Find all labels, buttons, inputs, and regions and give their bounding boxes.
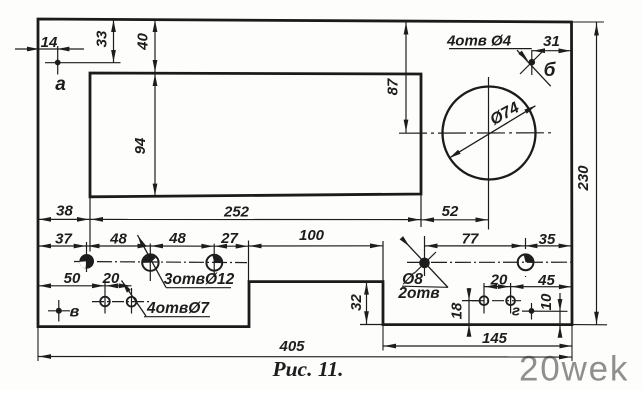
extension rect right edge xyxy=(420,194,422,227)
watermark 20wek xyxy=(519,350,629,389)
dim 252 xyxy=(90,204,421,223)
svg-text:20wek: 20wek xyxy=(519,350,629,389)
dim 31 xyxy=(532,33,572,53)
hole v xyxy=(48,300,70,322)
svg-text:40: 40 xyxy=(135,33,152,51)
svg-text:Рис. 11.: Рис. 11. xyxy=(271,357,343,381)
dim 405 xyxy=(38,327,572,361)
centerline small holes xyxy=(472,300,521,302)
extension notch right xyxy=(382,241,384,282)
svg-text:52: 52 xyxy=(442,203,459,220)
extension notch left xyxy=(248,241,250,282)
svg-text:а: а xyxy=(55,74,66,95)
dim 48 second xyxy=(150,230,214,248)
label b xyxy=(544,60,557,81)
dim 38 xyxy=(38,203,90,222)
svg-text:145: 145 xyxy=(482,330,508,347)
svg-text:10: 10 xyxy=(538,293,555,310)
dim 14 xyxy=(15,34,84,51)
hole O12 3 xyxy=(206,244,222,277)
hole b xyxy=(517,50,551,86)
circle vertical centerline xyxy=(488,77,490,230)
centerline O12 holes xyxy=(74,262,247,263)
plate outline xyxy=(38,19,572,327)
svg-text:4отв Ø4: 4отв Ø4 xyxy=(446,33,512,50)
dim 40 xyxy=(135,19,158,73)
dim 18 xyxy=(449,288,481,337)
rectangular cutout xyxy=(90,73,421,197)
dim 87 xyxy=(385,21,409,133)
dim 52 xyxy=(421,203,489,222)
centerline O8 holes xyxy=(407,261,571,263)
svg-text:50: 50 xyxy=(64,270,81,287)
dim 45 xyxy=(511,272,572,289)
label g xyxy=(512,303,520,320)
hole O12 2 xyxy=(142,244,158,282)
centerline O7 holes xyxy=(92,301,150,303)
svg-text:4отвØ7: 4отвØ7 xyxy=(146,300,210,317)
svg-text:405: 405 xyxy=(278,338,305,355)
svg-text:б: б xyxy=(544,60,557,81)
dim 94 xyxy=(132,73,157,197)
svg-text:2отв: 2отв xyxy=(397,285,439,302)
caption Ris 11 xyxy=(271,357,343,381)
dim 230 xyxy=(572,22,608,325)
dim 32 xyxy=(348,282,383,325)
dim 77 xyxy=(425,230,525,248)
hole a xyxy=(45,46,121,75)
svg-text:252: 252 xyxy=(223,204,250,221)
leader 3otv O12 xyxy=(138,235,167,288)
label v xyxy=(70,304,80,321)
label 4otv O4 xyxy=(446,33,532,50)
circle horizontal centerline xyxy=(399,132,554,134)
dim 33 xyxy=(94,19,116,63)
dim 20 right xyxy=(484,272,511,290)
dim 48 first xyxy=(87,231,151,249)
hole O8 1 xyxy=(400,236,448,288)
svg-text:38: 38 xyxy=(56,203,73,220)
dim 50 xyxy=(38,270,105,288)
circle O74 xyxy=(443,87,536,180)
label O74 xyxy=(487,99,522,129)
dim 145 xyxy=(383,325,573,361)
label 3otv O12 xyxy=(164,271,235,288)
hole g2 xyxy=(506,283,515,314)
svg-text:48: 48 xyxy=(168,230,186,247)
label 2otv xyxy=(397,285,439,302)
leader 4otv O7 xyxy=(122,281,147,317)
svg-text:35: 35 xyxy=(539,231,556,248)
label a xyxy=(55,74,66,95)
hole O8 2 xyxy=(518,238,534,277)
diameter arrow O74 xyxy=(449,106,536,159)
svg-text:230: 230 xyxy=(575,165,592,192)
svg-text:48: 48 xyxy=(109,231,127,248)
extension rect left edge xyxy=(89,197,91,252)
hole g xyxy=(522,303,568,320)
svg-text:в: в xyxy=(70,304,80,321)
svg-text:27: 27 xyxy=(220,230,238,247)
svg-text:20: 20 xyxy=(490,272,508,289)
svg-text:32: 32 xyxy=(348,294,365,311)
hole O7 2 xyxy=(127,288,137,314)
dim 100 xyxy=(249,227,384,248)
dim 35 xyxy=(525,231,572,248)
hole O7 1 xyxy=(100,281,110,314)
svg-text:3отвØ12: 3отвØ12 xyxy=(164,271,235,288)
label 4otv O7 xyxy=(144,300,210,317)
hole O12 1 xyxy=(79,242,94,272)
dim 37 xyxy=(38,231,87,249)
svg-text:31: 31 xyxy=(543,33,560,50)
svg-text:37: 37 xyxy=(55,231,72,248)
hole g1 xyxy=(480,283,489,314)
svg-text:45: 45 xyxy=(537,272,555,289)
svg-text:94: 94 xyxy=(132,137,149,154)
svg-text:87: 87 xyxy=(385,78,402,95)
label O8 xyxy=(402,271,448,288)
svg-text:100: 100 xyxy=(299,227,325,244)
svg-text:33: 33 xyxy=(94,30,111,47)
svg-text:г: г xyxy=(512,303,520,320)
svg-text:77: 77 xyxy=(462,230,479,247)
dim 20 left xyxy=(102,270,132,288)
svg-text:14: 14 xyxy=(41,34,58,51)
dim 27 xyxy=(214,230,248,249)
svg-text:18: 18 xyxy=(449,302,466,319)
dim 10 xyxy=(538,293,562,338)
